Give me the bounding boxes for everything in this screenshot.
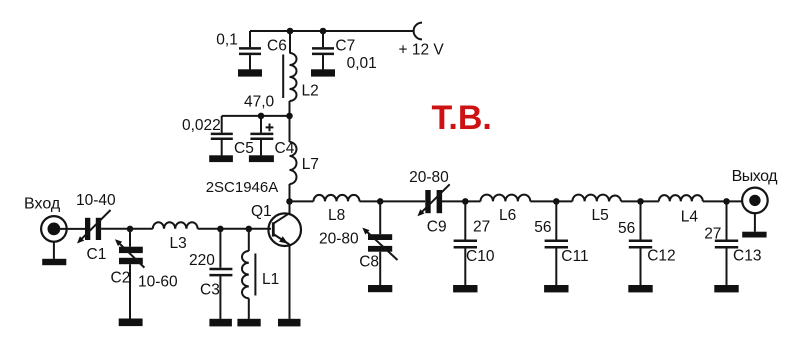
svg-text:10-60: 10-60 — [138, 274, 178, 291]
capacitor C9 trimmer — [409, 169, 450, 236]
svg-text:47,0: 47,0 — [244, 94, 275, 111]
wire L4 to output — [703, 200, 751, 202]
node junction C10 — [462, 198, 469, 205]
svg-text:L6: L6 — [499, 207, 516, 224]
svg-text:Выход: Выход — [732, 168, 779, 185]
svg-text:C10: C10 — [466, 248, 495, 265]
capacitor C3 — [189, 229, 232, 327]
node junction C11 — [553, 198, 560, 205]
wire collector to L8 — [290, 200, 314, 202]
wire L5 to L4 — [621, 200, 659, 202]
capacitor C4 — [249, 116, 295, 162]
wire top supply rail — [250, 30, 414, 32]
inductor L7 — [290, 116, 319, 201]
capacitor C6 — [216, 31, 287, 77]
node supply connector pin — [414, 23, 422, 40]
svg-text:L7: L7 — [302, 156, 319, 173]
svg-text:C8: C8 — [359, 253, 379, 270]
capacitor C7 — [311, 31, 377, 77]
svg-text:56: 56 — [618, 220, 635, 237]
svg-text:C2: C2 — [111, 270, 131, 287]
capacitor C10 — [453, 201, 495, 292]
capacitor C12 — [618, 201, 676, 292]
wire input to C1 — [59, 228, 85, 230]
capacitor C11 — [534, 201, 588, 292]
svg-text:C3: C3 — [200, 281, 220, 298]
svg-text:L8: L8 — [328, 207, 345, 224]
svg-text:Q1: Q1 — [251, 203, 272, 220]
svg-text:220: 220 — [189, 252, 215, 269]
node collector junction — [286, 198, 293, 205]
svg-text:27: 27 — [704, 226, 721, 243]
svg-text:L5: L5 — [592, 207, 609, 224]
svg-text:L3: L3 — [170, 235, 187, 252]
capacitor C8 variable — [319, 201, 398, 292]
svg-text:0,1: 0,1 — [216, 31, 238, 48]
wire L3 to base — [198, 228, 271, 230]
connector input jack — [41, 216, 67, 265]
node junction input — [127, 226, 134, 233]
svg-text:C11: C11 — [561, 248, 588, 265]
svg-text:2SC1946A: 2SC1946A — [206, 179, 279, 196]
svg-text:L2: L2 — [302, 83, 319, 100]
capacitor C2 variable — [111, 229, 179, 326]
svg-text:C5: C5 — [234, 140, 254, 157]
svg-text:10-40: 10-40 — [76, 192, 116, 209]
node junction top C7 — [320, 28, 327, 35]
svg-text:C9: C9 — [427, 219, 447, 236]
svg-text:C6: C6 — [267, 38, 287, 55]
svg-text:20-80: 20-80 — [409, 169, 449, 186]
svg-text:27: 27 — [473, 219, 490, 236]
svg-text:C7: C7 — [335, 37, 355, 54]
node junction C13 — [723, 198, 730, 205]
node junction C12 — [637, 198, 644, 205]
svg-text:L4: L4 — [681, 208, 699, 225]
svg-text:C12: C12 — [647, 247, 675, 264]
wire L8 to C9 — [360, 200, 426, 202]
connector output jack — [742, 188, 768, 238]
wire bias node — [222, 115, 290, 117]
svg-text:L1: L1 — [262, 271, 279, 288]
node junction C8 — [377, 198, 384, 205]
capacitor C5 — [182, 116, 254, 162]
transistor Q1 — [251, 201, 301, 326]
inductor L2 — [283, 31, 319, 116]
svg-text:+ 12 V: + 12 V — [399, 41, 445, 58]
svg-text:0,01: 0,01 — [347, 55, 377, 72]
svg-text:20-80: 20-80 — [319, 230, 359, 247]
node junction C3 — [217, 226, 224, 233]
svg-text:56: 56 — [534, 219, 551, 236]
inductor L1 — [237, 229, 279, 327]
capacitor C13 — [704, 201, 761, 292]
svg-text:C1: C1 — [87, 246, 107, 263]
svg-text:Т.В.: Т.В. — [432, 99, 492, 137]
inductor L3 — [153, 222, 198, 252]
svg-text:0,022: 0,022 — [182, 117, 221, 134]
svg-text:Вход: Вход — [24, 196, 61, 213]
node junction L2/L7 — [286, 113, 293, 120]
node junction C4 — [258, 113, 265, 120]
node junction L1 — [246, 226, 253, 233]
inductor L6 — [481, 195, 531, 225]
wire C1 to node — [101, 228, 153, 230]
wire C9 to L6 — [442, 200, 481, 202]
inductor L4 — [659, 195, 703, 225]
svg-text:C13: C13 — [733, 247, 761, 264]
node junction top L2 — [287, 28, 294, 35]
capacitor C1 trimmer — [76, 192, 116, 263]
wire L6 to L5 — [530, 200, 572, 202]
inductor L8 — [314, 195, 360, 224]
inductor L5 — [572, 195, 621, 225]
